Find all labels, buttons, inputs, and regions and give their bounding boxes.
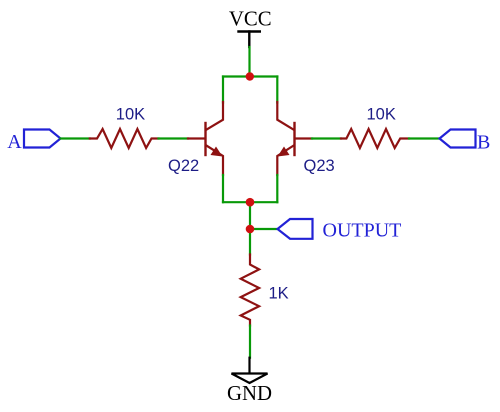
node output junction	[246, 225, 255, 234]
wire right emitter drop	[276, 175, 278, 202]
ground GND symbol	[232, 358, 268, 383]
resistor R1 10K (input A)	[90, 129, 159, 148]
power VCC symbol	[239, 32, 260, 48]
wire R2 to port B	[409, 137, 440, 139]
transistor Q22	[188, 102, 223, 175]
svg-text:OUTPUT: OUTPUT	[323, 219, 402, 241]
wire VCC stem (green)	[248, 47, 250, 77]
svg-text:B: B	[477, 132, 490, 154]
svg-text:GND: GND	[227, 382, 272, 405]
svg-text:10K: 10K	[116, 106, 145, 124]
wire R1 to Q22 base	[159, 137, 189, 139]
wire R3 to ground	[249, 326, 251, 358]
resistor R3 1K	[241, 255, 259, 326]
svg-text:A: A	[7, 131, 22, 153]
wire port A to R1	[61, 137, 91, 139]
svg-text:Q23: Q23	[304, 157, 335, 175]
wire top rail collector bus	[223, 75, 277, 77]
svg-text:Q22: Q22	[168, 157, 199, 175]
node emitter junction	[246, 198, 255, 207]
wire output tap	[250, 228, 278, 230]
svg-text:1K: 1K	[269, 285, 289, 303]
wire left emitter drop	[222, 175, 224, 202]
wire emitter rail to output node	[249, 202, 251, 254]
port OUTPUT	[278, 219, 402, 241]
svg-text:VCC: VCC	[229, 8, 272, 31]
port B	[440, 130, 491, 154]
wire right collector drop	[276, 77, 278, 103]
port A	[7, 130, 60, 154]
wire Q23 base to R2	[312, 137, 341, 139]
transistor Q23	[277, 102, 312, 175]
svg-text:10K: 10K	[367, 106, 396, 124]
node VCC junction	[246, 72, 254, 80]
wire left collector drop	[222, 77, 224, 103]
wire bottom emitter rail	[223, 201, 277, 203]
resistor R2 10K (input B)	[341, 129, 409, 148]
